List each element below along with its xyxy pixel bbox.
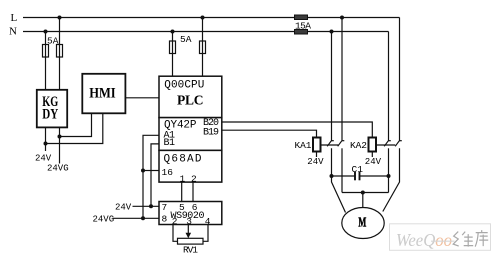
potentiometer RV1 body [178,238,204,244]
block HMI [82,74,125,114]
svg-text:B19: B19 [203,127,219,138]
svg-text:DY: DY [42,106,58,122]
junction C1 left [330,174,334,178]
wire L to KG DY [59,18,61,90]
junction A1 on 24VG wire [141,216,145,220]
motor M [342,208,384,239]
watermark WeeQoo [390,224,491,251]
svg-text:24V: 24V [115,202,132,212]
svg-text:WeeQoo: WeeQoo [396,230,452,250]
wire N to KG DY [45,32,47,90]
wire KG DY 24VG output down [59,127,61,163]
wire A1 to 24VG vertical [143,135,159,218]
svg-text:5A: 5A [47,36,59,47]
wire N to PLC [172,32,174,77]
svg-text:24V: 24V [307,157,324,167]
relay coil KA1 [313,138,321,152]
wire Q68AD pin1 to WS9020 pin5 [181,182,183,201]
fuse F6 15A on N [295,30,308,35]
block QY42P output module [159,118,222,151]
wire below contact KA1-b to bridge [341,148,343,192]
junction on N line feeding fuse F3 [171,30,175,34]
wire pin2 to RV1 left [173,225,178,242]
wire pin16 to A1 vertical [143,170,159,172]
fuse F3 5A [170,41,176,54]
svg-text:24V: 24V [35,154,52,164]
wire B19 to KA1 coil [222,130,317,137]
wire HMI to PLC [125,97,159,99]
contact KA1-b blade [338,141,345,147]
svg-text:KA1: KA1 [295,140,312,151]
wire B1 to 24V vertical [151,144,159,206]
svg-text:KA2: KA2 [350,140,367,151]
svg-text:8: 8 [162,214,168,225]
svg-text:16: 16 [162,167,174,178]
svg-text:RV1: RV1 [183,244,198,255]
svg-text:B1: B1 [164,138,176,149]
svg-text:1: 1 [180,173,186,184]
wire below contact KA1-a to C1 and motor left [332,148,346,212]
block WS9020 [159,202,222,225]
wire Q68AD pin2 to WS9020 pin6 [192,182,194,201]
wire N line [23,31,389,33]
junction C1 right [387,174,391,178]
contact KA2-a blade [384,141,391,147]
fuse F2 5A [57,45,63,58]
svg-text:PLC: PLC [177,92,204,107]
svg-text:5A: 5A [180,34,192,45]
junction on L line feeding fuse F4 [201,16,205,20]
wire KA2 coil to contacts [376,144,395,146]
wire 24V rail to HMI [46,113,103,143]
junction on L line feeding fuse F2 [58,16,62,20]
fuse F5 15A on L [295,15,308,20]
junction B1 on 24V wire [149,204,153,208]
fuse F4 5A [200,41,206,54]
wire KA2 coil bottom stub [371,152,373,158]
wire below contact KA2-a to bridge [388,148,390,192]
junction 24V rail [44,142,48,146]
wire L line [23,17,400,19]
svg-text:HMI: HMI [89,85,116,101]
svg-text:M: M [358,216,366,231]
wire vertical from L end to contact KA2-b [399,18,401,141]
wire pin4 to RV1 right [203,225,208,242]
wire B20 to KA2 coil [222,122,372,138]
junction N dot right [330,30,334,34]
svg-text:15A: 15A [295,21,311,32]
svg-text:Q68AD: Q68AD [164,154,202,166]
svg-text:Q00CPU: Q00CPU [164,80,204,92]
wire 24VG rail to HMI [60,113,92,136]
wire pin3 wiper [187,225,189,234]
svg-text:24VG: 24VG [47,164,69,174]
svg-text:24V: 24V [365,157,382,167]
wire vertical from L dot to contact KA1-b [341,18,343,141]
wire L to PLC [202,18,204,77]
svg-text:24VG: 24VG [93,215,115,225]
svg-text:N: N [9,26,17,38]
wire vertical from N end to contact KA2-a [388,32,390,141]
wire vertical from N dot to contact KA1-a [331,32,333,141]
contact KA1-a blade [327,141,334,147]
wire bridge between phases [342,192,389,194]
wire bridge to motor top [362,193,364,209]
junction pin16/A1 [141,169,145,173]
svg-text:C1: C1 [352,164,364,175]
relay coil KA2 [369,138,377,152]
block Q68AD analog module [159,150,222,182]
wire KA1 coil bottom stub [316,152,318,158]
wire below contact KA2-b to motor right [383,148,400,211]
capacitor C1 [332,172,389,181]
svg-text:L: L [11,12,18,24]
svg-text:2: 2 [191,173,197,184]
svg-text:3: 3 [186,216,192,227]
svg-text:7: 7 [162,202,168,213]
junction 24VG rail [58,135,62,139]
junction L dot right [340,16,344,20]
fuse F1 5A [43,45,49,58]
contact KA2-b blade [395,141,402,147]
block PLC Q00CPU [159,76,222,117]
wire 24V to pin7 [133,205,160,207]
junction bridge center [361,191,365,195]
wire KG DY 24V output down [45,127,47,151]
block KG DY power supply [37,90,67,128]
arrowhead wiper [186,233,192,239]
junction on N line feeding fuse F1 [44,30,48,34]
wire 24VG to pin8 [113,217,160,219]
wire KA1 coil to contacts [321,144,339,146]
